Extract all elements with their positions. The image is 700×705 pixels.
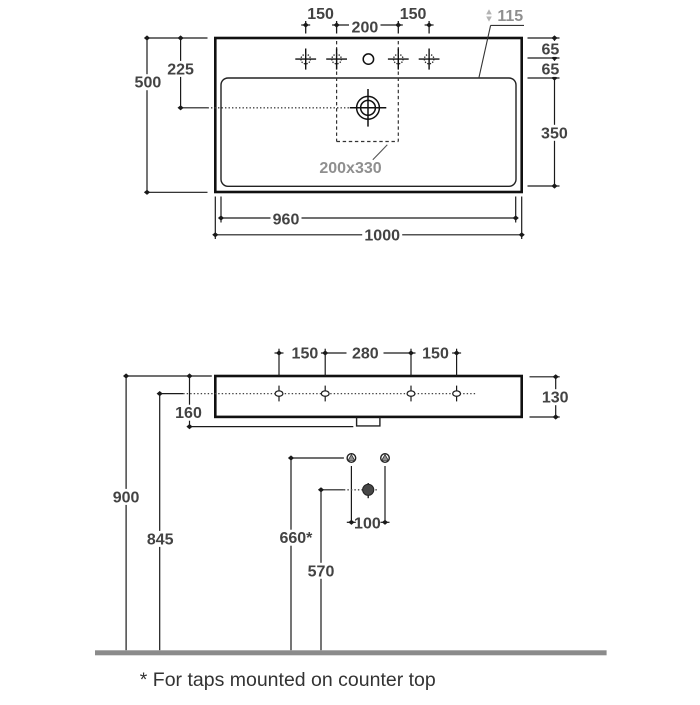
svg-text:660*: 660* [279, 530, 313, 547]
svg-text:130: 130 [542, 390, 569, 407]
svg-text:160: 160 [175, 405, 202, 422]
svg-text:150: 150 [400, 6, 427, 23]
svg-text:900: 900 [113, 489, 140, 506]
svg-text:845: 845 [147, 531, 174, 548]
svg-text:200x330: 200x330 [319, 160, 381, 177]
svg-text:150: 150 [307, 6, 334, 23]
svg-text:960: 960 [273, 211, 300, 228]
svg-text:280: 280 [352, 345, 379, 362]
svg-text:* For taps mounted on counter: * For taps mounted on counter top [140, 669, 436, 691]
svg-text:115: 115 [497, 8, 523, 25]
svg-text:570: 570 [308, 563, 335, 580]
svg-text:225: 225 [167, 61, 194, 78]
svg-text:150: 150 [292, 345, 319, 362]
svg-text:200: 200 [352, 20, 379, 37]
svg-text:65: 65 [542, 61, 560, 78]
svg-text:150: 150 [422, 345, 449, 362]
svg-text:500: 500 [135, 75, 162, 92]
svg-text:65: 65 [542, 41, 560, 58]
svg-text:100: 100 [354, 515, 381, 532]
svg-text:1000: 1000 [364, 228, 400, 245]
svg-text:350: 350 [541, 125, 568, 142]
